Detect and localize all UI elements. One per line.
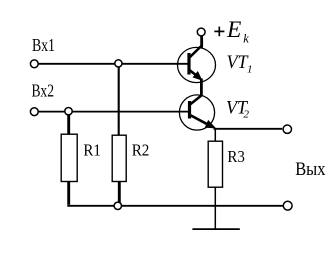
svg-text:Вых: Вых (295, 159, 326, 180)
wire J2 down to R1 top (67, 112, 70, 135)
node J2 on Bx2 wire (65, 108, 72, 115)
svg-text:Вх1: Вх1 (32, 35, 55, 55)
input terminal Bx1 (30, 60, 38, 68)
svg-text:R1: R1 (83, 141, 101, 160)
wire Bx2 input to VT2 base (38, 111, 189, 113)
output terminal bottom right (283, 201, 292, 210)
wire Bx1 input to VT1 base (38, 63, 189, 65)
input terminal Bx2 (30, 108, 38, 116)
svg-text:R2: R2 (132, 141, 150, 160)
power wire down from +Ek terminal (200, 36, 203, 49)
wire J1 down to R2 top (118, 64, 120, 136)
svg-text:VT: VT (227, 52, 249, 73)
svg-text:1: 1 (247, 64, 253, 76)
wire VT1 emitter to VT2 collector (200, 79, 203, 97)
resistor R1 (61, 134, 77, 181)
svg-text:R3: R3 (227, 147, 245, 166)
transistor VT1 (178, 38, 216, 83)
svg-text:k: k (243, 32, 249, 46)
output wire from VT2 emitter node to top-right terminal (214, 128, 283, 130)
wire R3 bottom through rail to ground (214, 187, 216, 229)
output terminal top right (283, 125, 291, 133)
node J1 on Bx1 wire (115, 60, 122, 67)
wire emitter node down to R3 top (214, 129, 216, 142)
node J3 on bottom rail (114, 202, 121, 209)
transistor VT2 (179, 95, 215, 130)
wire R1 bottom to bottom rail corner (67, 182, 70, 205)
resistor R3 (208, 141, 222, 187)
label +Ek (214, 30, 224, 32)
power terminal +Ek (197, 28, 205, 36)
bottom rail wire (67, 205, 283, 207)
svg-text:E: E (226, 17, 241, 43)
resistor R2 (112, 135, 126, 181)
svg-text:Вх2: Вх2 (32, 81, 55, 101)
ground bar (192, 228, 239, 230)
wire R2 bottom to rail node J3 (118, 182, 121, 204)
svg-text:2: 2 (244, 109, 250, 121)
